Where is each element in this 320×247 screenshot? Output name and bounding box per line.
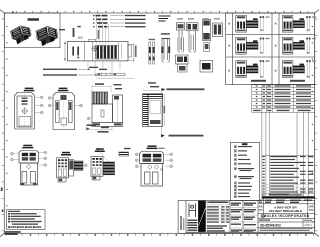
svg-text:SD-85046-002: SD-85046-002 [260,223,281,227]
svg-text:2X3 WAY BREAKABLE: 2X3 WAY BREAKABLE [269,209,302,213]
svg-text:MOLEX INCORPORATED: MOLEX INCORPORATED [263,214,310,218]
svg-text:REVISIONS: REVISIONS [283,197,294,199]
svg-text:1 OF 1: 1 OF 1 [304,224,312,227]
